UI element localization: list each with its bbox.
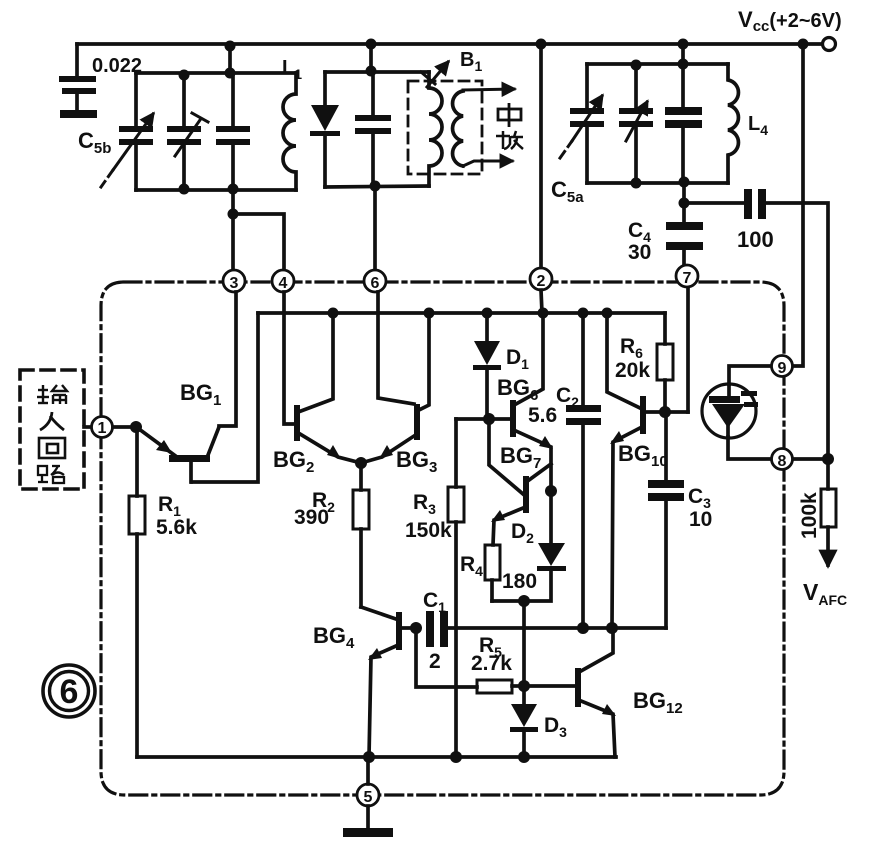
svg-text:BG1: BG1 bbox=[180, 380, 221, 409]
svg-text:6: 6 bbox=[60, 673, 79, 711]
junction rail BG10 base bbox=[602, 308, 613, 319]
svg-text:0.022: 0.022 bbox=[92, 55, 142, 77]
wire tank1 bottom to pin3 bbox=[231, 190, 235, 270]
svg-text:BG12: BG12 bbox=[633, 688, 683, 717]
svg-text:BG10: BG10 bbox=[618, 441, 668, 470]
svg-text:BG6: BG6 bbox=[497, 375, 538, 404]
wire internal rail bbox=[258, 311, 665, 315]
junction branch to pin4 bbox=[228, 209, 239, 220]
wire branch right to 100 cap bbox=[684, 201, 744, 205]
junction tank3 bottom trimmer bbox=[631, 178, 642, 189]
junction tank1 bottom trimmer bbox=[179, 184, 190, 195]
wire rail left end down to BG1 base bbox=[192, 313, 258, 482]
junction rail D1 bbox=[482, 308, 493, 319]
svg-text:150k: 150k bbox=[405, 519, 452, 542]
svg-text:BG7: BG7 bbox=[500, 443, 541, 472]
wire varactor to pin8 bbox=[728, 437, 771, 459]
glyph 输 bbox=[37, 385, 67, 404]
junction rail/tank2 bbox=[366, 39, 377, 50]
svg-text:390: 390 bbox=[294, 506, 329, 529]
node 7 bbox=[676, 265, 698, 287]
junction BG2/BG3 emitters bbox=[355, 457, 367, 469]
wire rail to pin9 drop bbox=[793, 44, 803, 366]
svg-text:D2: D2 bbox=[511, 520, 534, 546]
svg-text:30: 30 bbox=[628, 241, 651, 264]
svg-text:2: 2 bbox=[537, 273, 546, 290]
transistor BG4 bbox=[361, 607, 416, 757]
junction ground R3 bbox=[450, 751, 462, 763]
junction tank1 top trimmer bbox=[179, 70, 190, 81]
wire tank3 bottom down to C4 bbox=[682, 183, 686, 222]
wire tank2 bottom bbox=[325, 186, 429, 187]
wire pin9 to varactor bbox=[729, 366, 772, 384]
svg-text:R6: R6 bbox=[620, 335, 643, 361]
junction BG10 emitter / BG12 collector bbox=[606, 622, 618, 634]
ground (below 0.022) bbox=[60, 110, 97, 118]
wire pin6 down to BG3 base bbox=[378, 292, 414, 404]
svg-text:R3: R3 bbox=[413, 491, 436, 517]
junction tank3 bottom cap bbox=[679, 177, 690, 188]
junction rail BG3 collector bbox=[424, 308, 435, 319]
svg-text:2.7k: 2.7k bbox=[471, 652, 512, 675]
junction rail/tank1 bbox=[225, 41, 236, 52]
wire C1 right to C3 bottom bbox=[448, 626, 666, 630]
wire R4/D2 junction down to R5 bbox=[522, 601, 526, 686]
svg-text:5.6: 5.6 bbox=[528, 404, 557, 427]
wire B1 secondary bottom output arrow bbox=[463, 161, 512, 166]
junction tank3 top trimmer bbox=[631, 60, 642, 71]
arrow B1 adjustable bbox=[427, 62, 448, 87]
svg-text:8: 8 bbox=[778, 453, 787, 470]
wire tank3 bottom bbox=[587, 181, 728, 185]
junction branch to 100 cap bbox=[679, 198, 690, 209]
wire ground rail to pin5 bbox=[366, 757, 370, 784]
svg-text:D1: D1 bbox=[506, 346, 529, 372]
junction rail BG2 collector bbox=[328, 308, 339, 319]
resistor R4 bbox=[485, 545, 500, 601]
wire BG6 base to R3 bbox=[454, 419, 458, 487]
svg-text:4: 4 bbox=[279, 275, 288, 292]
node 5 bbox=[357, 784, 379, 806]
node 4 bbox=[272, 270, 294, 292]
transistor BG12 bbox=[524, 628, 616, 757]
ground (pin5) bbox=[343, 828, 393, 837]
junction rail pin2/BG6 bbox=[538, 308, 549, 319]
svg-text:D3: D3 bbox=[544, 714, 567, 740]
svg-text:B1: B1 bbox=[460, 49, 482, 74]
transistor BG6 bbox=[456, 313, 553, 491]
svg-text:BG2: BG2 bbox=[273, 447, 314, 476]
glyph 回 bbox=[39, 438, 65, 458]
svg-text:C2: C2 bbox=[556, 384, 579, 410]
wire branch to pin4 bbox=[233, 214, 284, 270]
wire pin7 down to BG10 collector bbox=[686, 288, 690, 412]
wire internal ground rail bbox=[137, 755, 616, 759]
svg-text:100k: 100k bbox=[798, 492, 821, 539]
wire tank1 bottom bbox=[136, 188, 296, 192]
capacitor C5b (variable) bbox=[101, 73, 153, 190]
junction BG4 base / C1 bbox=[410, 622, 422, 634]
junction ground BG4 emitter bbox=[363, 751, 375, 763]
wire rail to pin2 bbox=[539, 44, 543, 268]
glyph 中 bbox=[498, 103, 521, 127]
node 2 bbox=[530, 268, 552, 290]
svg-text:5.6k: 5.6k bbox=[156, 516, 197, 539]
wire 0.022 cap lead from rail bbox=[75, 44, 79, 76]
diode D2 bbox=[492, 491, 566, 601]
capacitor tank3 fixed bbox=[665, 64, 702, 183]
wire pin5 to ground bbox=[366, 806, 370, 828]
svg-text:100: 100 bbox=[737, 227, 774, 252]
wire rail to tank2 bbox=[369, 44, 373, 72]
svg-text:10: 10 bbox=[689, 508, 712, 531]
inductor L1 bbox=[283, 73, 296, 190]
svg-text:BG3: BG3 bbox=[396, 447, 437, 476]
transformer B1 dashed box bbox=[408, 81, 482, 174]
svg-text:R4: R4 bbox=[460, 553, 483, 579]
resistor R6 bbox=[657, 313, 673, 412]
junction rail/pin2 wire bbox=[536, 39, 547, 50]
wire tank3 top bbox=[587, 62, 728, 66]
wire 100 cap to right drop bbox=[766, 203, 828, 458]
transistor BG7 bbox=[489, 419, 551, 545]
junction R5/D3/BG12 base bbox=[518, 680, 530, 692]
capacitor 100 bbox=[744, 189, 766, 219]
wire B1 secondary top output arrow bbox=[463, 89, 514, 90]
svg-text:180: 180 bbox=[502, 570, 537, 593]
svg-text:C5b: C5b bbox=[78, 128, 111, 157]
wire rail to tank1 bbox=[228, 44, 232, 73]
junction tank2 bottom to pin6 bbox=[370, 181, 381, 192]
capacitor C1 bbox=[426, 611, 448, 647]
svg-text:2: 2 bbox=[429, 650, 441, 673]
capacitor tank2 fixed bbox=[355, 72, 391, 186]
transistor BG3 bbox=[361, 313, 429, 463]
wire tank1 top bbox=[136, 71, 296, 75]
svg-text:L4: L4 bbox=[748, 113, 768, 138]
svg-text:9: 9 bbox=[778, 360, 787, 377]
junction ground D3 bbox=[518, 751, 530, 763]
varactor diode circle bbox=[702, 384, 756, 438]
diode tank2 bbox=[310, 72, 340, 187]
svg-text:VAFC: VAFC bbox=[803, 579, 847, 608]
transformer B1 secondary coil bbox=[453, 91, 463, 166]
capacitor tank3 trimmer bbox=[619, 64, 653, 183]
svg-text:3: 3 bbox=[230, 275, 239, 292]
glyph 路 bbox=[38, 466, 64, 483]
resistor R2 bbox=[353, 463, 369, 607]
svg-text:5: 5 bbox=[364, 789, 373, 806]
glyph 放 bbox=[496, 131, 523, 149]
junction rail/tank3 bbox=[678, 39, 689, 50]
wire pin4 down to BG2 base bbox=[284, 292, 294, 424]
wire tank2 bottom to pin6 bbox=[373, 186, 377, 270]
node 9 bbox=[772, 356, 793, 377]
capacitor C5a (variable) bbox=[560, 64, 604, 183]
capacitor tank1 fixed bbox=[216, 73, 250, 190]
transistor BG10 bbox=[607, 313, 688, 628]
svg-text:7: 7 bbox=[683, 270, 692, 287]
input circuit dashed box bbox=[20, 370, 84, 489]
svg-text:Vcc(+2~6V): Vcc(+2~6V) bbox=[738, 7, 842, 35]
node 1 bbox=[84, 417, 113, 438]
capacitor C4 bbox=[666, 222, 703, 250]
node 6 bbox=[364, 270, 386, 292]
figure number 6 bbox=[43, 665, 95, 717]
terminal Vcc open circle bbox=[823, 38, 836, 51]
glyph 入 bbox=[40, 412, 64, 430]
wire tank2 top bbox=[325, 70, 429, 74]
svg-text:L1: L1 bbox=[282, 57, 302, 82]
node 8 bbox=[772, 449, 793, 470]
diode D1 bbox=[473, 313, 501, 419]
diode D3 bbox=[510, 686, 538, 757]
resistor R3 bbox=[448, 487, 464, 757]
junction pin8/100k/100cap bbox=[822, 453, 834, 465]
svg-text:C1: C1 bbox=[423, 589, 446, 615]
svg-text:BG4: BG4 bbox=[313, 623, 355, 652]
junction tank1 bottom cap bbox=[228, 184, 239, 195]
svg-text:6: 6 bbox=[371, 275, 380, 292]
svg-text:1: 1 bbox=[98, 420, 107, 437]
junction C2 bottom bbox=[577, 622, 589, 634]
wire rail to tank3 bbox=[681, 44, 685, 64]
transistor BG2 bbox=[294, 313, 361, 463]
junction rail C2 bbox=[578, 308, 589, 319]
transformer B1 primary coil bbox=[429, 72, 442, 186]
junction rail/pin9 drop bbox=[798, 39, 809, 50]
wire pin8 to 100k bbox=[793, 457, 829, 461]
junction BG6 base / D1 bbox=[483, 413, 495, 425]
capacitor 0.022 bbox=[59, 76, 96, 94]
svg-text:20k: 20k bbox=[615, 359, 650, 382]
junction R6/BG10 collector/C3 bbox=[659, 406, 671, 418]
capacitor C3 bbox=[648, 412, 684, 628]
resistor R1 bbox=[129, 428, 145, 757]
wire C4 to pin7 bbox=[682, 250, 686, 264]
capacitor C2 bbox=[566, 313, 601, 628]
capacitor trimmer (tank1 middle) bbox=[167, 73, 208, 190]
wire BG4 base down to R5 bbox=[416, 628, 477, 687]
inductor L4 bbox=[728, 64, 738, 183]
transistor BG1 bbox=[113, 292, 236, 482]
node 3 bbox=[223, 270, 245, 292]
wire pin2 to rail bbox=[541, 290, 542, 313]
resistor R5 bbox=[477, 680, 524, 693]
junction R4/D2 to R5 bbox=[518, 595, 530, 607]
resistor 100k bbox=[821, 459, 836, 565]
IC boundary chain line bbox=[101, 282, 784, 795]
junction BG6 emitter / D2 bbox=[545, 485, 557, 497]
wire Vcc top rail bbox=[77, 42, 820, 46]
svg-text:C5a: C5a bbox=[551, 177, 584, 206]
